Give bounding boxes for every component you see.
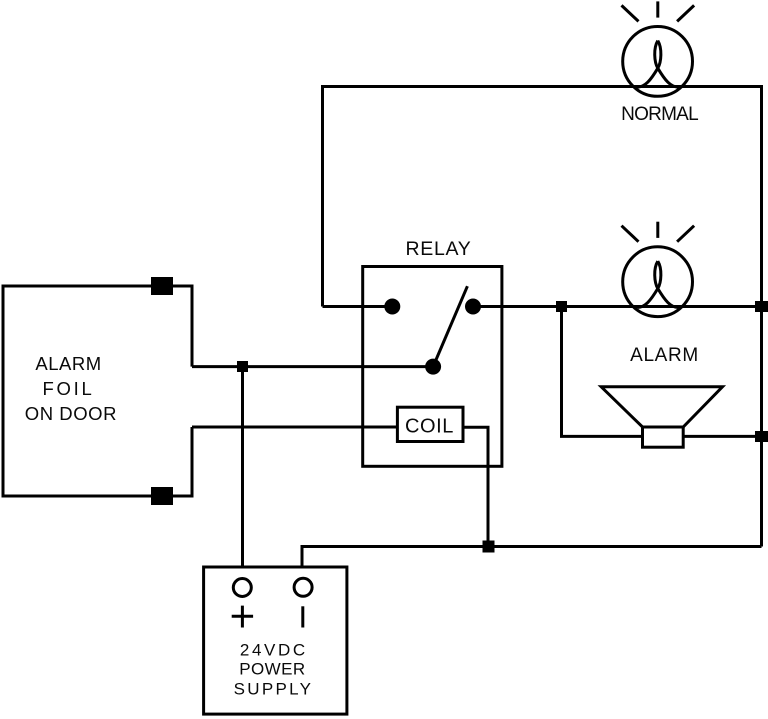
junction node B	[556, 301, 567, 312]
speaker	[601, 387, 722, 447]
lamp ALARM	[622, 222, 695, 317]
power supply - terminal	[294, 578, 312, 596]
wire: left riser, top run and right rail	[323, 87, 762, 547]
svg-text:POWER: POWER	[239, 660, 305, 679]
wire: node B down and across to right rail (speaker branch)	[562, 307, 762, 437]
junction: right rail at lamp row	[755, 301, 768, 312]
terminal: foil top	[151, 277, 173, 295]
terminal: foil bottom	[151, 487, 173, 505]
coil box	[397, 407, 463, 441]
svg-text:SUPPLY: SUPPLY	[234, 679, 314, 698]
power supply + terminal	[233, 579, 251, 597]
wire: NC row into relay	[323, 305, 393, 308]
svg-text:24VDC: 24VDC	[240, 640, 308, 659]
alarm foil box	[3, 286, 192, 496]
power supply box	[204, 567, 347, 714]
wire: bottom return to power supply -	[302, 547, 762, 568]
lamp NORMAL	[622, 1, 695, 96]
svg-text:ALARM: ALARM	[35, 353, 101, 374]
svg-text:FOIL: FOIL	[43, 378, 95, 399]
relay NC contact	[384, 299, 400, 315]
svg-text:COIL: COIL	[405, 416, 454, 438]
junction node A	[237, 361, 248, 372]
svg-text:ON DOOR: ON DOOR	[25, 403, 117, 424]
relay common contact	[425, 359, 441, 375]
wire: foil top terminal to relay common	[192, 365, 433, 368]
wire: NO contact to right rail through alarm lamp	[473, 305, 762, 308]
wire: node A to power supply +	[241, 367, 244, 567]
label: ALARM FOIL ON DOOR	[25, 353, 117, 424]
junction node C	[483, 541, 495, 553]
- sign (vertical bar)	[301, 606, 304, 627]
relay armature	[433, 286, 467, 366]
svg-text:ALARM: ALARM	[630, 345, 699, 366]
relay box	[363, 267, 502, 467]
+ sign	[232, 606, 253, 628]
wire: coil output to node C	[463, 427, 488, 546]
label: 24VDC POWER SUPPLY	[234, 640, 314, 698]
wire: foil bottom terminal to coil	[192, 426, 397, 429]
svg-text:RELAY: RELAY	[406, 238, 472, 260]
junction: right rail at speaker row	[755, 431, 768, 442]
relay NO contact	[465, 299, 481, 315]
svg-text:NORMAL: NORMAL	[621, 104, 698, 125]
